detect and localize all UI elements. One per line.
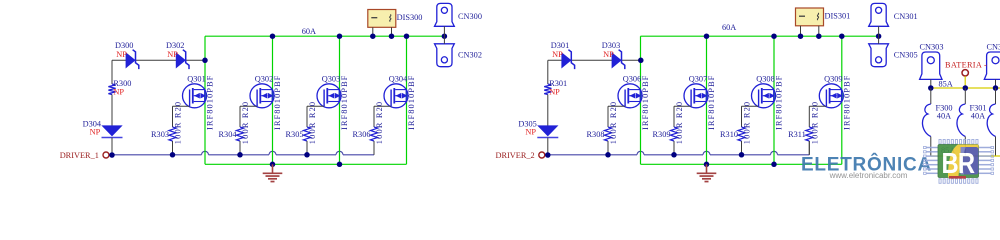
svg-text:100R R20: 100R R20 xyxy=(675,101,684,144)
svg-text:R309: R309 xyxy=(653,130,671,139)
svg-text:Q302: Q302 xyxy=(255,74,273,83)
svg-text:NP: NP xyxy=(603,50,614,59)
svg-text:Q309: Q309 xyxy=(824,74,842,83)
svg-text:CN302: CN302 xyxy=(458,51,482,60)
svg-text:60A: 60A xyxy=(302,27,316,36)
svg-text:CN305: CN305 xyxy=(894,51,918,60)
svg-text:NP: NP xyxy=(90,128,101,137)
svg-text:NP: NP xyxy=(552,50,563,59)
svg-text:R303: R303 xyxy=(151,130,169,139)
svg-text:CN303: CN303 xyxy=(920,42,944,51)
svg-text:R306: R306 xyxy=(353,130,371,139)
svg-text:Q303: Q303 xyxy=(322,74,340,83)
svg-text:DIS301: DIS301 xyxy=(825,12,851,21)
svg-text:CN301: CN301 xyxy=(894,12,918,21)
svg-text:Q306: Q306 xyxy=(623,74,641,83)
svg-text:IRF8010PBF: IRF8010PBF xyxy=(841,75,851,130)
svg-text:NP: NP xyxy=(116,50,127,59)
svg-text:100R R20: 100R R20 xyxy=(308,101,317,144)
svg-text:R310: R310 xyxy=(720,130,738,139)
svg-text:DRIVER_1: DRIVER_1 xyxy=(60,151,99,160)
svg-text:IRF8010PBF: IRF8010PBF xyxy=(640,75,650,130)
svg-text:IRF8010PBF: IRF8010PBF xyxy=(774,75,784,130)
svg-text:100R R20: 100R R20 xyxy=(174,101,183,144)
svg-text:CN304: CN304 xyxy=(987,42,1000,51)
svg-text:60A: 60A xyxy=(722,23,736,32)
svg-text:CN300: CN300 xyxy=(458,12,482,21)
svg-text:NP: NP xyxy=(525,128,536,137)
svg-text:IRF8010PBF: IRF8010PBF xyxy=(205,75,215,130)
svg-text:BR: BR xyxy=(942,147,975,180)
svg-text:R311: R311 xyxy=(788,130,806,139)
svg-text:Q307: Q307 xyxy=(689,74,707,83)
svg-text:85A: 85A xyxy=(939,80,953,89)
svg-text:Q301: Q301 xyxy=(187,74,205,83)
svg-text:R305: R305 xyxy=(286,130,304,139)
svg-text:NP: NP xyxy=(113,88,124,97)
svg-text:www.eletronicabr.com: www.eletronicabr.com xyxy=(829,171,908,180)
svg-text:100R R20: 100R R20 xyxy=(609,101,618,144)
svg-text:Q308: Q308 xyxy=(756,74,774,83)
svg-text:40A: 40A xyxy=(971,112,985,121)
svg-text:100R R20: 100R R20 xyxy=(810,101,819,144)
svg-text:40A: 40A xyxy=(937,112,951,121)
svg-text:IRF8010PBF: IRF8010PBF xyxy=(272,75,282,130)
svg-text:IRF8010PBF: IRF8010PBF xyxy=(339,75,349,130)
svg-text:R304: R304 xyxy=(219,130,238,139)
svg-text:BATERIA -: BATERIA - xyxy=(945,61,987,70)
svg-text:NP: NP xyxy=(167,50,178,59)
svg-text:R308: R308 xyxy=(587,130,605,139)
svg-text:DIS300: DIS300 xyxy=(397,13,423,22)
svg-text:IRF8010PBF: IRF8010PBF xyxy=(706,75,716,130)
svg-text:IRF8010PBF: IRF8010PBF xyxy=(406,75,416,130)
svg-text:100R R20: 100R R20 xyxy=(743,101,752,144)
svg-text:100R R20: 100R R20 xyxy=(241,101,250,144)
svg-text:NP: NP xyxy=(549,88,560,97)
svg-text:100R R20: 100R R20 xyxy=(375,101,384,144)
svg-text:DRIVER_2: DRIVER_2 xyxy=(496,151,535,160)
